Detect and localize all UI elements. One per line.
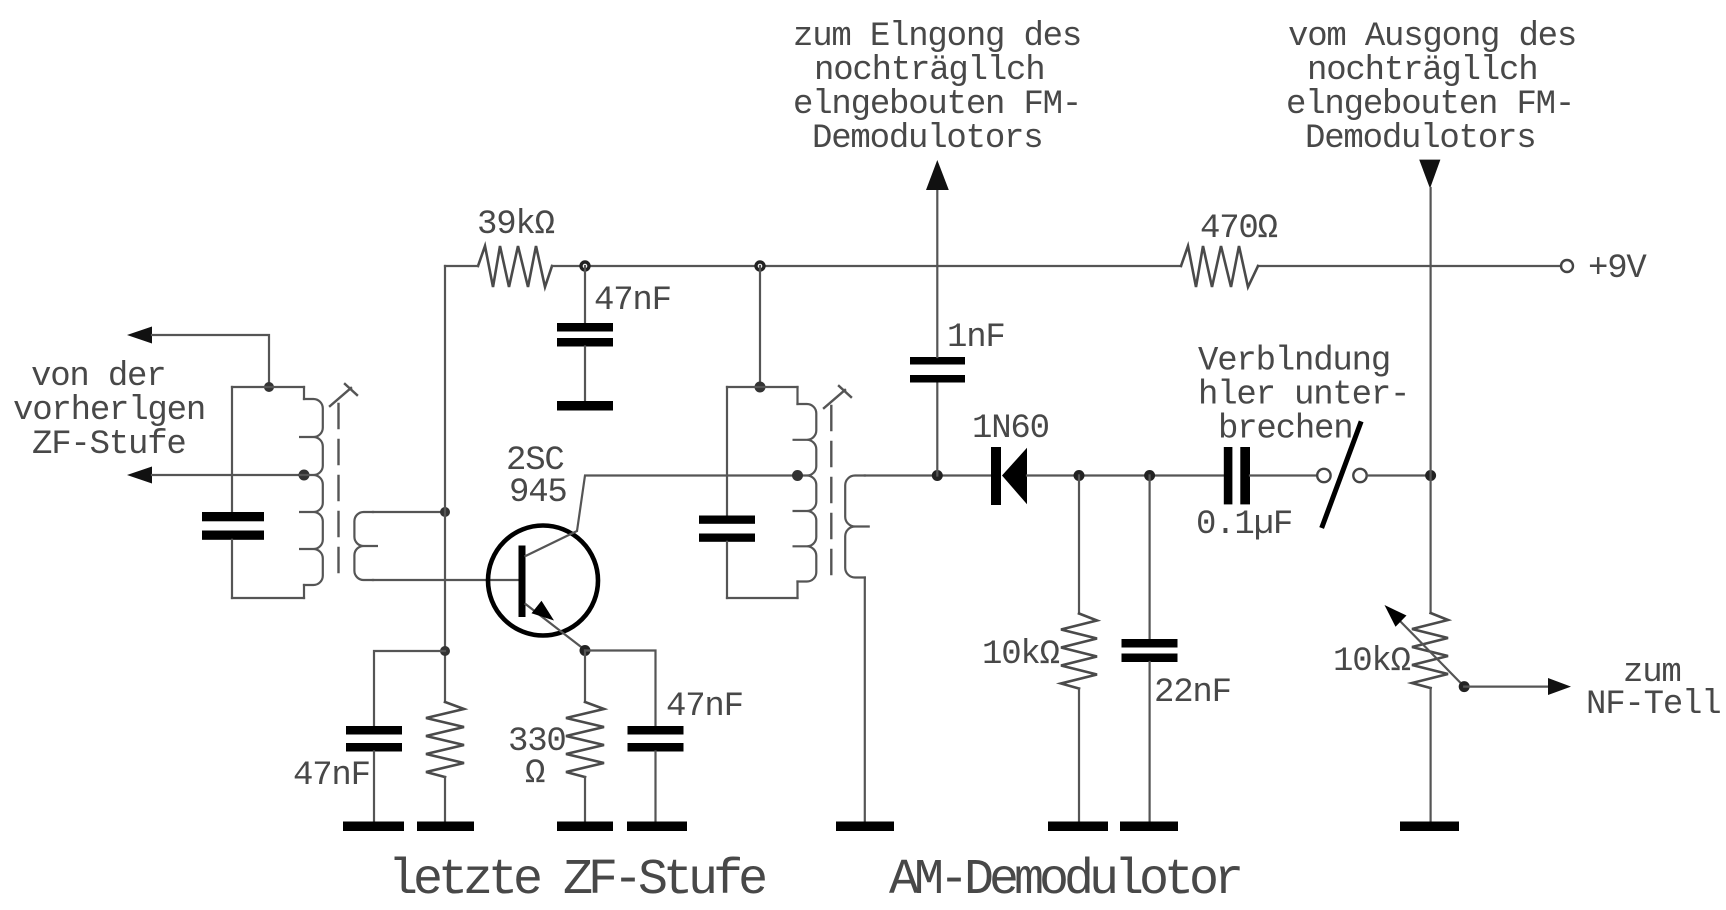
label Verbindung hier unterbrechen (1198, 343, 1409, 449)
ground below potentiometer (1400, 822, 1459, 832)
node output arrow right (zum NF-Teil) (1548, 678, 1571, 695)
ground below bias resistor (417, 822, 474, 832)
label 0.1uF (1196, 506, 1292, 544)
ground below 330 Ohm (557, 822, 613, 832)
node junction dot rail/47nF top (581, 262, 589, 270)
node output arrow up (zum Eingang des FM-Demodulators) (926, 160, 949, 190)
node junction dot rail/T2 feed (756, 262, 764, 270)
capacitor tank of T1 (inline on left leg) (202, 387, 264, 598)
transformer T1 secondary winding (354, 512, 378, 580)
label 10kOhm load (982, 636, 1060, 674)
potentiometer 10kOhm volume (1412, 613, 1448, 822)
svg-text:nochträgllch: nochträgllch (1307, 52, 1537, 90)
resistor 330 Ohm emitter (566, 651, 604, 822)
switch blade slash (1323, 424, 1361, 526)
node junction dot T1 top (264, 382, 274, 392)
node junction dot bias node / 47nF branch (440, 646, 450, 656)
transformer T2 primary winding (727, 387, 816, 598)
svg-text:47nF: 47nF (293, 757, 370, 795)
capacitor tank of T2 (inline on left leg) (699, 387, 755, 598)
svg-text:1N60: 1N60 (972, 410, 1049, 448)
transformer T1 core (dashed) with adjuster tick (330, 384, 357, 580)
capacitor 0.1uF coupling (1224, 447, 1250, 504)
node +9V terminal (1561, 260, 1573, 272)
node junction dot emitter (580, 645, 591, 656)
wire from upper input arrow to transformer T1 top (152, 335, 269, 387)
svg-text:elngebouten FM-: elngebouten FM- (793, 86, 1081, 124)
wire T1 secondary top to bias node (373, 511, 445, 513)
transformer T2 secondary winding (845, 476, 870, 822)
label AM-Demodulator (889, 852, 1240, 909)
svg-text:NF-Tell: NF-Tell (1586, 686, 1720, 724)
label 47nF emitter (666, 688, 743, 726)
capacitor 1nF to FM demodulator input (910, 190, 965, 476)
capacitor C 47nF (rail decoupling top) (557, 266, 613, 401)
node junction dot 10k load (1074, 470, 1085, 481)
node junction dot bias/secondary-top (440, 507, 450, 517)
svg-text:945: 945 (509, 474, 567, 512)
node junction dot 22nF (1144, 470, 1155, 481)
label 1N60 (972, 410, 1049, 448)
node junction dot T2 top (755, 382, 766, 393)
svg-text:vorherlgen: vorherlgen (13, 392, 205, 430)
svg-text:Demodulotors: Demodulotors (1305, 120, 1535, 158)
node input arrow down (vom Ausgang des FM-Demodulators) (1419, 160, 1440, 189)
transistor Q1 2SC945 circle (488, 526, 598, 636)
svg-text:hler unter-: hler unter- (1198, 377, 1409, 415)
node input arrow top (von der vorherigen ZF-Stufe, upper) (127, 327, 152, 344)
label 47nF lower-left (293, 757, 370, 795)
ground below emitter 47nF (627, 822, 687, 832)
label 330 Ohm (508, 723, 566, 793)
label 39kOhm (477, 206, 555, 244)
svg-text:47nF: 47nF (666, 688, 743, 726)
svg-text:AM-Demodulotor: AM-Demodulotor (889, 852, 1240, 909)
label 2SC 945 (506, 442, 567, 512)
svg-text:0.1µF: 0.1µF (1196, 506, 1292, 544)
wire rail to transformer T2 top (759, 266, 761, 387)
transistor Q1 emitter lead with arrow (526, 601, 586, 650)
svg-text:zum Elngong des: zum Elngong des (793, 18, 1081, 56)
transistor Q1 collector lead (526, 476, 798, 557)
label vom Ausgang des nachtraeglich eingebauten FM-Demodulators (1286, 18, 1576, 158)
ground below T2 secondary (836, 822, 894, 832)
svg-text:Demodulotors: Demodulotors (812, 120, 1042, 158)
wire +9V rail (445, 265, 1561, 267)
transformer T2 core (dashed) with adjuster tick (824, 386, 851, 577)
node junction dot switch output (1425, 470, 1436, 481)
label 47nF top (594, 282, 671, 320)
transformer T1 primary winding (232, 387, 323, 598)
diode 1N60 (991, 447, 1027, 505)
wire switch to FM return vertical (1367, 474, 1431, 476)
svg-text:ZF-Stufe: ZF-Stufe (32, 426, 186, 464)
potentiometer wiper arrow (1385, 605, 1465, 687)
node input arrow bottom (von der vorherigen ZF-Stufe, lower) (127, 467, 152, 484)
svg-text:brechen: brechen (1218, 411, 1352, 449)
label zum Eingang des nachtraeglich eingebauten FM-Demodulators (793, 18, 1081, 158)
wire diode to 0.1uF (1027, 474, 1224, 476)
label 10kOhm pot (1333, 643, 1411, 681)
label zum NF-Teil (1586, 654, 1720, 724)
resistor 470 Ohm (1181, 246, 1258, 287)
wire demodulator line (T2 secondary top to diode) (865, 474, 991, 476)
svg-text:1nF: 1nF (947, 319, 1005, 357)
svg-text:von der: von der (31, 358, 165, 396)
wire wiper to NF output arrow (1464, 685, 1549, 687)
label 1nF (947, 319, 1005, 357)
label letzte ZF-Stufe (388, 852, 765, 909)
svg-text:47nF: 47nF (594, 282, 671, 320)
ground below lower-left 47nF (343, 822, 404, 832)
svg-text:22nF: 22nF (1154, 674, 1231, 712)
node junction dot 1nF (932, 470, 943, 481)
svg-text:nochträgllch: nochträgllch (814, 52, 1044, 90)
svg-text:10kΩ: 10kΩ (1333, 643, 1411, 681)
svg-text:470Ω: 470Ω (1200, 210, 1278, 248)
ground below top 47nF (557, 401, 613, 411)
svg-text:Ω: Ω (525, 755, 545, 793)
label 470 Ohm (1200, 210, 1278, 248)
svg-text:letzte ZF-Stufe: letzte ZF-Stufe (388, 852, 765, 909)
node junction dot wiper (1459, 681, 1470, 692)
label +9V (1588, 250, 1647, 288)
label 22nF (1154, 674, 1231, 712)
wire from lower input arrow to transformer T1 primary tap (152, 474, 304, 476)
label von der vorherigen ZF-Stufe (13, 358, 205, 464)
wire 0.1uF to switch (1250, 474, 1317, 476)
ground below 22nF (1120, 822, 1178, 832)
svg-text:39kΩ: 39kΩ (477, 206, 555, 244)
capacitor C 47nF (base bypass, lower left) (346, 726, 402, 822)
resistor 39kOhm (478, 246, 552, 287)
svg-text:10kΩ: 10kΩ (982, 636, 1060, 674)
svg-text:elngebouten FM-: elngebouten FM- (1286, 86, 1574, 124)
resistor R-bias vertical (unlabeled) (426, 702, 464, 822)
svg-text:+9V: +9V (1588, 250, 1647, 288)
wire bias node to left 47nF capacitor (374, 651, 445, 726)
ground below 10kOhm load (1048, 822, 1108, 832)
wire FM return vertical (1429, 188, 1431, 613)
transistor Q1 base bar (519, 546, 526, 618)
node junction dot T1 primary tap (299, 470, 310, 481)
wire +9V rail left corner down (bias feed vertical) (444, 266, 446, 702)
switch contact circles (1317, 469, 1367, 482)
svg-text:Verblndung: Verblndung (1198, 343, 1390, 381)
svg-text:vom Ausgong des: vom Ausgong des (1288, 18, 1576, 56)
node junction dot T2 primary tap (collector) (792, 470, 803, 481)
capacitor 22nF (1122, 476, 1178, 822)
wire T1 secondary bottom to transistor base (373, 579, 519, 581)
wire emitter node to right 47nF (585, 651, 656, 727)
resistor 10kOhm load (1061, 476, 1097, 822)
capacitor C 47nF (emitter bypass, lower right) (628, 726, 684, 822)
